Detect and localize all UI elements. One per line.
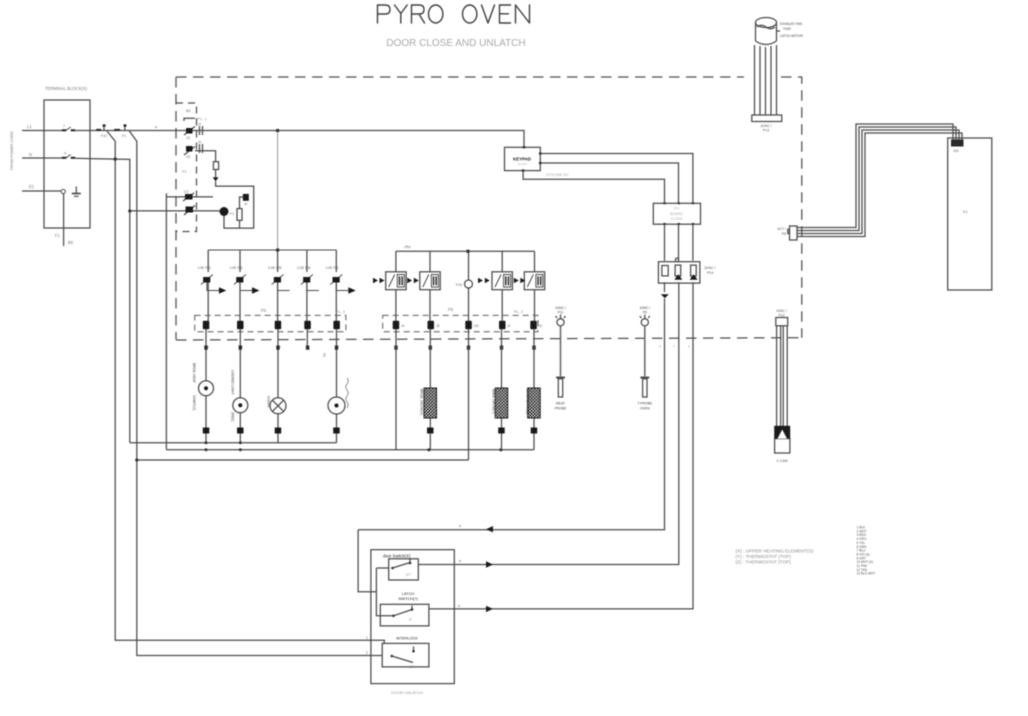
- svg-text:JUNC /: JUNC /: [760, 124, 772, 128]
- svg-text:P.L. 3: P.L. 3: [336, 310, 345, 314]
- svg-text:START(X): START(X): [192, 395, 196, 410]
- svg-text:a: a: [459, 559, 461, 563]
- svg-text:ACT /: ACT /: [777, 227, 786, 231]
- svg-text:K1: K1: [963, 209, 969, 214]
- svg-text:13 BLK-WHT: 13 BLK-WHT: [857, 572, 876, 576]
- svg-text:(Z) : THERMOSTAT (TOP): (Z) : THERMOSTAT (TOP): [736, 560, 792, 565]
- svg-text:F20: F20: [456, 283, 462, 287]
- svg-text:KEYPAD: KEYPAD: [513, 157, 531, 162]
- svg-text:JUNC /: JUNC /: [555, 306, 566, 310]
- svg-text:(RED): (RED): [231, 412, 235, 421]
- svg-text:(X): (X): [323, 353, 327, 357]
- svg-text:JUNC /: JUNC /: [704, 266, 716, 270]
- svg-text:J5: J5: [436, 324, 440, 328]
- svg-text:DOOR CLOSE AND UNLATCH: DOOR CLOSE AND UNLATCH: [386, 38, 525, 49]
- svg-text:J10: J10: [953, 149, 959, 153]
- svg-text:THAT: THAT: [783, 27, 791, 31]
- svg-text:P11: P11: [558, 311, 564, 315]
- svg-text:J8: J8: [244, 202, 248, 206]
- svg-text:LOCKED LIGHT: LOCKED LIGHT: [231, 370, 235, 395]
- svg-text:F1: F1: [55, 233, 61, 238]
- svg-text:F1: F1: [122, 134, 126, 138]
- svg-text:C-CAM: C-CAM: [776, 459, 787, 463]
- svg-text:OVEN: OVEN: [640, 407, 650, 411]
- svg-text:P.L. 2: P.L. 2: [514, 310, 523, 314]
- svg-text:J5a: J5a: [403, 244, 411, 249]
- svg-text:JUNC /: JUNC /: [639, 306, 650, 310]
- svg-text:P12: P12: [778, 314, 784, 318]
- svg-text:F1: F1: [230, 212, 234, 216]
- svg-text:L1: L1: [27, 124, 32, 129]
- svg-text:P4: P4: [261, 308, 267, 313]
- svg-text:P.L. 1: P.L. 1: [197, 116, 208, 121]
- svg-text:27°: 27°: [406, 573, 412, 577]
- svg-text:P.C: P.C: [674, 207, 680, 211]
- svg-text:EXHAUST FAN: EXHAUST FAN: [780, 22, 803, 26]
- svg-text:CLOCK: CLOCK: [670, 217, 683, 221]
- svg-text:INTERLOCK: INTERLOCK: [396, 637, 418, 641]
- svg-text:J4: J4: [401, 324, 405, 328]
- svg-text:DOOR UNLATCH: DOOR UNLATCH: [391, 690, 423, 695]
- svg-text:P1: P1: [182, 169, 188, 174]
- svg-text:(Y) : THERMOSTAT (TOP): (Y) : THERMOSTAT (TOP): [736, 554, 792, 559]
- svg-text:STROBE 5V: STROBE 5V: [546, 172, 569, 177]
- svg-text:a: a: [155, 125, 157, 129]
- svg-text:P13: P13: [763, 129, 769, 133]
- svg-text:CLEAN: CLEAN: [267, 396, 271, 408]
- svg-text:J2: J2: [507, 324, 511, 328]
- svg-text:a: a: [459, 524, 461, 528]
- svg-text:MEAT: MEAT: [556, 402, 565, 406]
- svg-text:TERMINAL BLOCK(X): TERMINAL BLOCK(X): [45, 86, 88, 91]
- svg-text:t-05 705: t-05 705: [326, 266, 339, 270]
- svg-text:–: –: [167, 191, 169, 195]
- svg-text:BOARD: BOARD: [670, 212, 683, 216]
- svg-text:BAKE 2400W(Y): BAKE 2400W(Y): [492, 389, 496, 414]
- svg-text:(X) : UPPER HEATING ELEMENT(S): (X) : UPPER HEATING ELEMENT(S): [736, 549, 814, 554]
- svg-text:BROIL 3400W(X): BROIL 3400W(X): [420, 389, 424, 415]
- svg-text:2: 2: [366, 651, 368, 655]
- svg-text:PROBE: PROBE: [555, 407, 568, 411]
- svg-text:P14: P14: [707, 271, 713, 275]
- svg-text:t-05 705: t-05 705: [198, 266, 211, 270]
- svg-text:1: 1: [366, 636, 368, 640]
- svg-text:SWITCH(?): SWITCH(?): [398, 597, 418, 601]
- svg-text:J10: J10: [474, 324, 479, 328]
- svg-text:t-05 706: t-05 706: [230, 266, 243, 270]
- svg-text:J3: J3: [539, 324, 543, 328]
- svg-text:T-PROBE: T-PROBE: [637, 402, 653, 406]
- svg-text:2-05 706: 2-05 706: [297, 266, 310, 270]
- svg-text:BAKE 1200W(Z): BAKE 1200W(Z): [526, 389, 530, 414]
- svg-text:JUNC /: JUNC /: [776, 309, 787, 313]
- svg-text:LATCH: LATCH: [402, 592, 414, 596]
- svg-text:24: 24: [198, 122, 202, 126]
- svg-text:C2: C2: [184, 190, 189, 194]
- svg-text:BOARD: BOARD: [518, 162, 527, 166]
- svg-text:door Switch(X): door Switch(X): [383, 554, 411, 559]
- svg-text:26: 26: [198, 140, 202, 144]
- svg-text:P9: P9: [643, 311, 647, 315]
- svg-text:BROIL HEAT: BROIL HEAT: [192, 363, 196, 383]
- svg-text:2-05 705: 2-05 705: [268, 266, 281, 270]
- svg-text:F10: F10: [101, 134, 107, 138]
- svg-text:E1: E1: [29, 184, 35, 189]
- svg-text:LATCH MOTOR: LATCH MOTOR: [780, 34, 804, 38]
- svg-text:B0: B0: [68, 240, 74, 245]
- svg-text:a: a: [458, 604, 460, 608]
- svg-text:N: N: [29, 152, 32, 157]
- svg-text:P6: P6: [448, 307, 454, 312]
- svg-text:P6: P6: [782, 232, 786, 236]
- svg-text:FROM POWER CORD: FROM POWER CORD: [10, 131, 14, 170]
- svg-text:B1: B1: [186, 108, 192, 113]
